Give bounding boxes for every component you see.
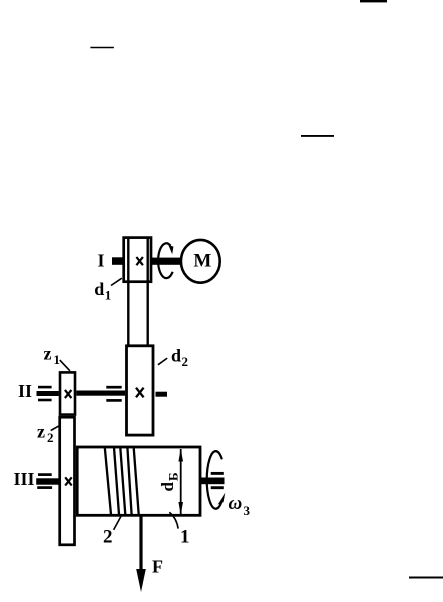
- svg-text:z: z: [44, 344, 52, 364]
- svg-text:III: III: [14, 469, 35, 489]
- svg-text:3: 3: [244, 503, 251, 518]
- svg-text:z: z: [37, 422, 45, 442]
- svg-text:ω: ω: [229, 493, 243, 514]
- svg-text:1: 1: [105, 288, 112, 303]
- svg-text:II: II: [18, 381, 32, 401]
- svg-text:M: M: [193, 251, 211, 272]
- svg-text:d: d: [158, 482, 177, 492]
- svg-text:d: d: [94, 279, 104, 299]
- svg-text:1: 1: [54, 352, 61, 367]
- svg-text:2: 2: [103, 526, 113, 547]
- svg-text:Б: Б: [166, 472, 181, 481]
- svg-text:I: I: [97, 250, 104, 270]
- svg-text:F: F: [152, 557, 163, 577]
- svg-text:2: 2: [47, 430, 54, 445]
- svg-text:1: 1: [180, 526, 190, 547]
- svg-text:d: d: [171, 346, 181, 366]
- svg-text:2: 2: [182, 354, 189, 369]
